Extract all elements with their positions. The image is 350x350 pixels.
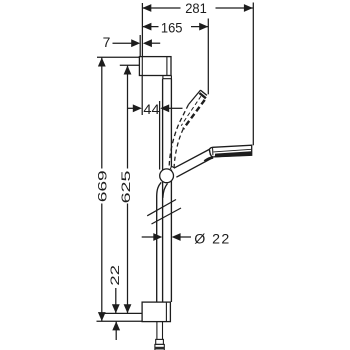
hose left line below holder (157, 182, 162, 302)
extension line 281-right x253 (252, 3, 254, 146)
extension line wall-left x142.3 (141, 3, 143, 56)
break mark upper diagonal (147, 200, 176, 216)
dashed head stipple band at cap (199, 93, 206, 98)
hose below bottom bracket right (162, 322, 164, 340)
top wall bracket (139, 57, 171, 76)
extension line bottom-mount y313.3 (104, 312, 142, 314)
rail right line (170, 79, 172, 302)
dimension 625 line (127, 66, 129, 169)
solid handle top edge (174, 149, 209, 168)
arrow 281 right (244, 4, 253, 12)
hose connector nut dark band (155, 347, 164, 350)
handshower dashed upper position (169, 90, 207, 168)
svg-text:44: 44 (143, 101, 159, 117)
dimension 44 line (128, 107, 134, 109)
arrow 22 lower up (112, 321, 120, 330)
extension line bottom-end y321.2 (97, 320, 143, 322)
hose connector nut (155, 344, 164, 350)
arrow 165 left (142, 23, 151, 31)
bottom bracket inner right line (165, 302, 167, 322)
extension line bracket-front x140.2 (139, 35, 141, 56)
dashed head face cap (200, 90, 207, 95)
break mark lower diagonal (152, 208, 182, 224)
top bracket inner right line (166, 57, 168, 76)
extension line 669-top y57.5 (97, 56, 139, 58)
dashed head left edge solid part (189, 90, 201, 104)
arrow 281 left (142, 4, 151, 12)
arrow 7 right-pointing (131, 39, 140, 47)
arrow 44 left-pointing tip (133, 104, 142, 112)
hose below bottom bracket left (156, 322, 158, 340)
arrow 625 top (124, 66, 132, 75)
top bracket inner left line (141, 57, 143, 76)
svg-text:22: 22 (108, 265, 122, 286)
solid handle bottom edge (176, 158, 213, 178)
svg-text:165: 165 (161, 20, 183, 36)
rail collar under top bracket (163, 76, 172, 79)
dashed head middle rim line (181, 96, 201, 126)
extension line 165-right x208.3 (207, 19, 209, 95)
solid shower neck back edge (209, 150, 212, 155)
extension line 44-left x142.2 (141, 76, 143, 116)
arrow 669 bottom (98, 312, 106, 321)
arrow 44 right-pointing tip (160, 104, 169, 112)
arrow 625 bottom (124, 304, 132, 313)
rail left line (162, 79, 164, 302)
dimension 165 line (142, 26, 158, 28)
svg-text:669: 669 (96, 170, 110, 202)
handshower solid horizontal position (174, 145, 252, 177)
solid head outline (209, 145, 251, 157)
holder on rail (160, 169, 174, 183)
hose right curve below holder (163, 184, 168, 199)
dimension dia22 line (142, 236, 154, 238)
dimension 281 line (142, 7, 180, 9)
bottom wall bracket (142, 302, 170, 322)
hose connector small (156, 339, 164, 344)
dashed handle right edge (174, 129, 183, 168)
dashed head left edge dashed part (169, 105, 188, 167)
dashed head right thick band (183, 100, 205, 129)
svg-text:625: 625 (119, 170, 133, 203)
solid shower neck bottom shadow (205, 157, 214, 161)
arrow 165 right (199, 23, 208, 31)
holder clamp notch (170, 166, 175, 170)
dimension 7 line (113, 42, 133, 44)
arrow 22 upper down (112, 304, 120, 313)
svg-text:7: 7 (103, 34, 111, 50)
arrow 669 top (98, 58, 106, 67)
dimension 669 line (101, 58, 103, 169)
dimension 22 line (115, 288, 117, 313)
arrow dia22 left (153, 233, 162, 241)
solid shower head left rim edge (212, 148, 214, 156)
arrow dia22 right (172, 233, 181, 241)
svg-text:Ø 22: Ø 22 (194, 232, 229, 248)
solid head rim line (213, 149, 251, 152)
solid head stipple band (215, 151, 252, 157)
extension line 625-top y65.3 (120, 64, 140, 66)
arrow 7 left-pointing (143, 39, 152, 47)
svg-text:281: 281 (185, 1, 207, 17)
extension line 44-right x159.6 (159, 101, 161, 170)
dimension 22 lower tail (115, 321, 117, 340)
